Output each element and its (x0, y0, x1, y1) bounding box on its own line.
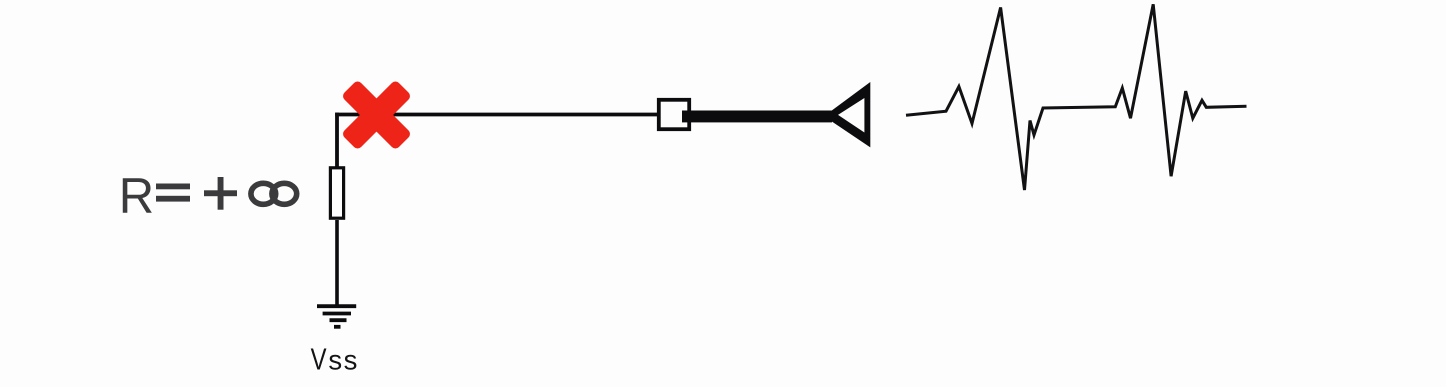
svg-text:ss: ss (328, 344, 359, 375)
probe tip triangle inner window (838, 98, 864, 133)
value label R=+infinity (119, 169, 297, 225)
ground (earth) symbol (317, 306, 356, 327)
probe tip triangle (824, 82, 870, 147)
net label Vss (311, 341, 359, 376)
svg-text:V: V (311, 341, 327, 376)
wire: horizontal from corner node to connector (335, 113, 659, 117)
resistor R (box style) (330, 168, 343, 218)
open-circuit X mark (red cross over broken node) (341, 79, 412, 150)
wire: resistor bottom to ground (335, 220, 339, 306)
connector pad (open square terminal) (659, 100, 689, 129)
probe shaft (thick lead) (682, 111, 832, 123)
svg-text:R: R (119, 169, 154, 225)
waveform trace (noise signal) (906, 4, 1247, 190)
wire: vertical from corner node down to resistor top (335, 113, 339, 167)
